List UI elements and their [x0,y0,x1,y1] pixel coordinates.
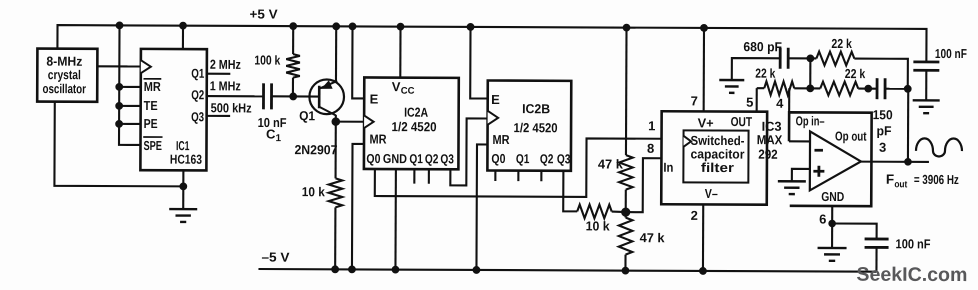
svg-text:Q1: Q1 [516,151,530,166]
svg-text:10 k: 10 k [302,184,326,199]
junction rail Q1 emitter [332,22,340,30]
junction tie-MR [115,83,123,91]
junction rail 47k lower [622,267,630,275]
junction rail IC2A MR [348,265,356,273]
wire IC2B Q2 stub [540,171,542,181]
ground op-amp + input [778,180,806,183]
ground 100nF top [913,99,940,102]
capacitor C5 100 nF top [913,60,939,63]
svg-text:5: 5 [746,95,753,110]
svg-text:GND: GND [821,189,844,204]
capacitor C2 150 pF [876,78,879,99]
wire op-amp noninverting input to ground [792,169,810,182]
svg-text:8: 8 [647,141,654,156]
wire IC3 OUT pin5 up [756,88,758,111]
junction rail 47k upper [623,24,631,32]
wire 150pF to output node [885,88,908,90]
IC U2B IC2B 1/2 4520 [487,80,571,170]
wire 100nF to -5V rail [875,247,877,271]
svg-text:2 MHz: 2 MHz [210,57,241,72]
resistor R6 22k input [764,81,794,95]
svg-text:22 k: 22 k [755,66,776,81]
svg-text:Op in–: Op in– [796,113,825,128]
junction rail IC3 V+ [700,24,708,32]
resistor R2 10k [329,178,343,207]
svg-text:47 k: 47 k [640,230,666,245]
wire collector to 10k [335,122,337,179]
resistor R5 47k lower [619,218,633,255]
wire 100nF top to ground [925,70,927,100]
svg-text:6: 6 [819,211,826,226]
svg-text:1/2 4520: 1/2 4520 [514,120,558,135]
junction rail IC2A E [349,22,357,30]
svg-text:Q3: Q3 [557,151,571,166]
wire oscillator ground lead [54,102,183,187]
svg-text:100 nF: 100 nF [935,46,967,61]
IC U1 IC1 HC163 counter [140,49,207,171]
svg-text:–5 V: –5 V [261,250,289,265]
junction rail IC3 V- [699,267,707,275]
svg-text:22 k: 22 k [831,36,852,51]
wire 22k to node 811 [794,87,820,89]
ground 680pF [719,79,744,82]
svg-text:+5 V: +5 V [250,6,278,21]
junction rail IC2B E [467,23,475,31]
svg-text:SeekIC.com: SeekIC.com [856,264,967,286]
svg-text:In: In [663,160,673,175]
junction output node [904,158,912,166]
wire IC2B MR to -5V [476,144,487,270]
node B filter input node [621,207,630,216]
svg-text:47 k: 47 k [598,156,624,171]
junction Q1 base node [289,93,297,101]
oscillator X1 8-MHz crystal oscillator [37,49,97,102]
svg-text:2: 2 [691,208,698,223]
wire IC2B Q0 stub [494,171,496,181]
svg-text:IC2B: IC2B [522,101,550,116]
wire 680pF to 22k row1 [788,57,816,59]
wire Q1 2MHz stub [207,73,230,75]
wire pin6 to 100nF [832,223,877,239]
svg-text:150: 150 [873,107,893,122]
wire IC3 V+ pin7 to +5V [703,28,705,111]
svg-text:4: 4 [776,96,784,111]
svg-text:Q0: Q0 [491,151,505,166]
op-amp U3B uncommitted op amp box [789,112,872,206]
wire IC3 V- pin2 to -5V [702,204,704,270]
pin IC2B clock chevron [488,111,499,125]
svg-text:100 nF: 100 nF [896,236,931,251]
svg-text:CC: CC [401,86,415,97]
wire TE stub [119,105,140,107]
wire 22k top to output node [854,59,908,89]
svg-text:PE: PE [144,116,158,131]
svg-text:MR: MR [369,131,387,146]
junction rail 100k [289,22,297,30]
svg-text:Q1: Q1 [191,66,204,81]
wire PE stub [119,123,140,125]
svg-text:10 k: 10 k [586,218,611,233]
wire Q2 1MHz to C1 [207,95,263,97]
svg-text:OUT: OUT [731,114,753,129]
svg-text:100 k: 100 k [254,52,281,67]
resistor R4 47k upper [619,155,633,190]
transistor Q1 2N2907 PNP [309,79,344,114]
svg-text:TE: TE [144,98,158,113]
wire pin5 to 22k [757,87,764,89]
junction node row2 right [864,85,872,93]
junction rail IC2B MR [473,266,481,274]
wire link row1-row2 [809,58,811,88]
wire IC2A Q0 to IC3 pin1 CLK [375,138,662,198]
wire IC2A VCC to +5V [399,27,401,78]
wire IC2A E to +5V [352,26,364,98]
pin filter input chevron [683,136,691,147]
junction rail IC2A GND [392,266,400,274]
wire IC1 control tie line to +5V [119,25,141,145]
svg-text:E: E [491,92,500,107]
svg-text:3: 3 [879,140,886,155]
svg-text:V: V [392,79,401,94]
junction feedback-output node [904,85,912,93]
svg-text:1/2 4520: 1/2 4520 [392,119,437,134]
wire IC1 VCC [182,26,184,49]
wire IC2B Q3 to 10k [563,171,577,212]
wire Q1 emitter to +5V [335,26,337,81]
junction rail IC2A VCC [397,23,405,31]
wire IC2A Q2 stub [428,169,430,183]
wire +5V to 47k upper [625,28,628,155]
svg-text:7: 7 [691,93,698,108]
svg-text:V–: V– [705,186,718,201]
wire 10k to -5V [334,207,336,269]
wire Q1 collector [335,115,337,122]
symbol sine wave output [916,138,962,156]
wire IC2A Q3 to IC2B clock [450,118,487,185]
wire IC2A GND to -5V [394,169,397,269]
junction node row1 [806,54,814,62]
svg-text:oscillator: oscillator [42,81,86,96]
IC U3 IC3 MAX292 filter section [661,111,767,204]
svg-text:pF: pF [877,123,892,138]
wire op-amp GND pin6 [831,206,833,247]
svg-text:1 MHz: 1 MHz [210,78,241,93]
svg-text:680 pF: 680 pF [743,39,782,54]
wire 47k upper to node B [625,190,627,218]
svg-text:22 k: 22 k [845,66,866,81]
wire IC2A MR to -5V [352,144,364,270]
svg-text:SPE: SPE [143,138,162,153]
junction tie-TE [115,102,123,110]
wire op-amp inverting input to pin4 [789,140,810,142]
svg-text:Op out: Op out [835,129,867,144]
svg-text:IC2A: IC2A [404,105,429,120]
wire MR stub [119,86,140,88]
wire Q3 500kHz stub [207,115,230,117]
wire C1 to Q1 base [272,95,320,97]
svg-text:filter: filter [701,160,734,175]
svg-text:2N2907: 2N2907 [294,142,337,157]
ground pin6 [818,247,847,250]
wire 100k top lead [292,26,294,54]
svg-text:Q2: Q2 [540,151,554,166]
wire IC2B E to +5V [470,27,488,99]
ground IC1 [169,208,197,211]
svg-text:GND: GND [383,151,407,166]
capacitor C3 680 pF [779,48,782,69]
svg-text:MR: MR [492,132,510,147]
resistor R1 100k [286,54,300,78]
svg-text:out: out [894,179,908,190]
wire oscillator output to IC1 clock [97,65,140,67]
svg-text:500 kHz: 500 kHz [211,100,252,115]
capacitor C1 10 nF [262,83,265,109]
svg-text:MAX: MAX [757,132,783,147]
capacitor C4 100 nF bottom [865,238,889,241]
svg-text:MR: MR [144,79,162,94]
wire 100k bottom lead [292,78,294,97]
junction tie-PE [115,120,123,128]
svg-text:1: 1 [276,133,282,144]
op-amp U3B triangle [810,131,861,190]
wire 47k lower to -5V [624,255,626,271]
junction Q1 collector node [331,117,340,126]
wire pin4 stub [788,88,790,112]
junction IC1 ground node [179,182,187,190]
svg-text:Q2: Q2 [425,151,439,166]
svg-text:1: 1 [648,118,655,133]
wire node B to IC3 In pin8 [626,158,662,212]
svg-text:= 3906 Hz: = 3906 Hz [914,172,959,187]
wire +5V rail [57,25,926,62]
svg-text:Q1: Q1 [299,108,315,123]
junction rail IC1 VCC [179,22,187,30]
wire Q1 collector to IC2A clock [336,121,364,123]
svg-text:Q1: Q1 [409,151,423,166]
svg-text:Q2: Q2 [191,87,204,102]
junction rail 10k [331,265,339,273]
IC U2A IC2A 1/2 4520 [364,77,459,169]
svg-text:crystal: crystal [48,67,81,82]
svg-text:292: 292 [758,147,778,162]
svg-text:E: E [370,91,379,106]
wire feedback to output [907,89,909,162]
svg-text:HC163: HC163 [170,152,202,167]
wire IC2A Q1 stub [413,169,415,183]
junction node row2 left [806,84,814,92]
svg-text:F: F [886,172,894,187]
wire -5V rail [258,269,876,272]
junction rail tie line [116,21,124,29]
svg-text:Q3: Q3 [440,151,454,166]
wire op-amp output pin3 [861,161,929,163]
pin IC1 clock input chevron [141,60,151,73]
junction pin6 node [828,220,836,228]
wire IC1 GND lead [182,170,184,209]
pin IC2A clock chevron [364,115,374,128]
svg-text:Q0: Q0 [366,151,380,166]
resistor R3 10k [577,205,612,219]
svg-text:Q3: Q3 [191,109,204,124]
block switched-capacitor filter [683,130,748,182]
wire 10k to node B [612,210,626,213]
svg-text:V+: V+ [698,115,714,130]
resistor R7 22k feedback [820,82,858,96]
wire IC2B Q1 stub [517,171,519,181]
wire ground to 680pF [732,58,780,80]
resistor R8 22k top [816,52,854,66]
wire 22k to 150pF [858,88,877,90]
